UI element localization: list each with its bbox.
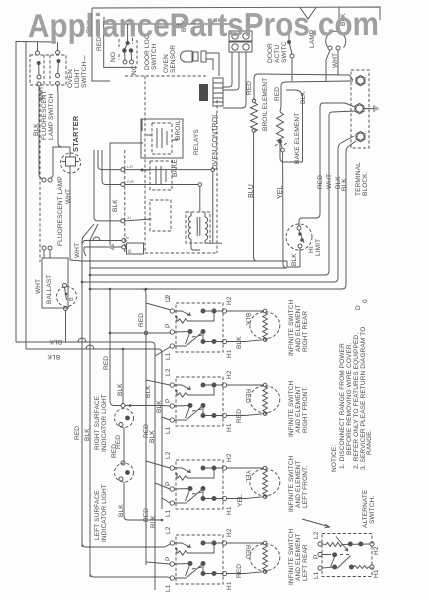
svg-text:TERMINAL: TERMINAL: [355, 162, 362, 196]
hop on J4 wire: [93, 237, 100, 241]
wire BLK feed from border (upper): [16, 342, 155, 430]
svg-text:BLK: BLK: [291, 253, 298, 266]
wire H2 to element: [226, 310, 263, 312]
svg-text:OVEN: OVEN: [67, 69, 74, 88]
connector block lower: [229, 42, 252, 52]
svg-text:SWITCH—: SWITCH—: [81, 55, 88, 88]
svg-text:RED: RED: [274, 87, 281, 101]
svg-text:BLU: BLU: [248, 184, 255, 198]
svg-text:ACTU: ACTU: [274, 45, 281, 63]
terminal top (hex nut): [356, 75, 365, 85]
wire BLK2 terminal 3 down: [342, 141, 356, 289]
svg-text:WHT: WHT: [326, 174, 333, 189]
svg-text:P: P: [165, 399, 172, 403]
svg-text:2. REFER ONLY TO FEATURES EQUI: 2. REFER ONLY TO FEATURES EQUIPPED.: [353, 333, 360, 469]
wire bundle left drops: [82, 241, 86, 257]
svg-text:RED: RED: [103, 356, 110, 370]
wire BLU from oven control: [254, 132, 258, 261]
svg-text:NO: NO: [110, 52, 117, 62]
svg-text:P: P: [165, 557, 172, 561]
wire feeds left front: [146, 430, 170, 590]
wire bus y275 WHT: [90, 274, 325, 276]
svg-text:BLK: BLK: [117, 383, 124, 396]
wire control drops to transformer: [200, 172, 213, 244]
hop marks on BLK feed: [78, 338, 94, 349]
relay board enclosure: [110, 143, 143, 245]
wire bus y289 BLK2: [90, 288, 342, 290]
svg-text:FLUORESCENT LAMP: FLUORESCENT LAMP: [57, 176, 64, 246]
surface element (right rear): [250, 309, 280, 341]
svg-text:NOTICE:: NOTICE:: [331, 445, 338, 472]
svg-text:LIMIT: LIMIT: [315, 239, 322, 256]
right surface indicator light: [115, 348, 171, 461]
svg-text:L2: L2: [313, 531, 320, 539]
svg-text:INFINITE SWITCH: INFINITE SWITCH: [288, 299, 295, 356]
door lock switch contacts: [123, 24, 134, 64]
svg-text:RED: RED: [143, 508, 150, 522]
relays stamp (reversed print): [199, 84, 208, 101]
svg-text:RED: RED: [244, 545, 251, 559]
junction ring control J2: [198, 183, 202, 187]
svg-text:H1: H1: [226, 349, 233, 358]
svg-text:L1: L1: [165, 584, 172, 592]
wire top run to switches: [16, 42, 58, 51]
svg-text:SWITCH.: SWITCH.: [369, 496, 376, 524]
alternate switch dashed box: [322, 534, 372, 577]
terminal middle (hex nut): [355, 103, 364, 113]
svg-text:BLK: BLK: [112, 199, 119, 212]
svg-text:BAKE: BAKE: [172, 159, 179, 177]
connector ring J4: [122, 239, 126, 243]
svg-text:L2: L2: [165, 368, 172, 376]
wire RED terminal 2 to hi limit: [299, 103, 355, 226]
wire bus y268 YEL left: [90, 267, 287, 269]
svg-text:SWITCH: SWITCH: [151, 43, 158, 70]
connector ring J3: [121, 219, 125, 223]
door actuated switch: [288, 24, 295, 81]
lamp end contacts (bottom pair): [42, 246, 52, 258]
wire L2 right rear feed: [146, 303, 171, 310]
wire J2 run to control: [125, 184, 198, 186]
surface element (left rear): [250, 541, 280, 573]
svg-text:SWITC: SWITC: [281, 41, 288, 63]
svg-text:N: N: [126, 236, 129, 240]
svg-text:BEFORE REMOVING WIRE COVER.: BEFORE REMOVING WIRE COVER.: [346, 342, 353, 455]
bake element thermal switch: [275, 140, 288, 152]
alternate switch contacts: [318, 537, 374, 571]
pin code marks: [126, 165, 134, 240]
svg-text:WHT: WHT: [74, 243, 81, 258]
wire lamp to bus: [70, 260, 82, 261]
fluorescent lamp switch / oven light switch dashed box: [30, 55, 66, 85]
svg-text:YEL: YEL: [244, 470, 251, 483]
wire feeds right front: [146, 380, 170, 420]
svg-text:RED: RED: [244, 389, 251, 403]
starter dashed circle: [61, 153, 81, 173]
terminal block dashed box: [351, 70, 369, 148]
wire bundle to J4: [84, 240, 122, 242]
svg-text:LAMP SWITCH: LAMP SWITCH: [48, 93, 55, 140]
oven light switch contacts: [56, 51, 61, 86]
dashed aux box: [150, 200, 171, 231]
wire L1 right rear feed: [155, 347, 170, 356]
svg-text:RED: RED: [138, 313, 145, 327]
svg-text:RIGHT FRONT.: RIGHT FRONT.: [302, 386, 309, 433]
broil bottom terminal: [252, 129, 255, 132]
starter body: [66, 157, 76, 166]
svg-text:L2: L2: [165, 526, 172, 534]
svg-text:H2: H2: [226, 453, 233, 462]
wire bus y261 BLU left: [82, 260, 260, 262]
wire H2 to element: [226, 467, 263, 469]
bake element: [277, 112, 284, 141]
wire YEL from bake switch: [283, 152, 287, 268]
svg-text:RED: RED: [74, 426, 81, 440]
arrow to alternate switch: [302, 519, 330, 528]
svg-text:RED: RED: [111, 444, 118, 458]
svg-text:BLK: BLK: [341, 178, 348, 191]
svg-text:ALTERNATE: ALTERNATE: [362, 489, 369, 528]
wire J1 run to control: [125, 169, 211, 171]
junction ring control J1: [211, 168, 215, 172]
relay output connector strip: [213, 78, 223, 106]
ground connector box GRD: [127, 243, 144, 254]
svg-text:BROIL ELEMENT: BROIL ELEMENT: [262, 78, 269, 131]
wire left border BLK bus (outer): [15, 41, 17, 342]
svg-text:DOOR: DOOR: [267, 43, 274, 63]
wire top border (BLK run to lamp): [92, 7, 380, 20]
svg-text:L1: L1: [165, 352, 172, 360]
junction node: [141, 169, 144, 172]
svg-text:AND ELEMENT: AND ELEMENT: [295, 385, 302, 433]
svg-text:SENSOR: SENSOR: [170, 45, 177, 73]
wire BLK terminal 3 down: [334, 136, 354, 282]
svg-text:G: G: [127, 249, 133, 253]
svg-text:BLOCK.: BLOCK.: [362, 171, 369, 196]
svg-text:WHT: WHT: [332, 53, 339, 68]
infinite switch (left rear): [170, 535, 227, 584]
connector block upper: [229, 31, 252, 41]
wire H1 to element: [226, 497, 263, 499]
broil element: [251, 103, 258, 133]
svg-text:L1: L1: [165, 509, 172, 517]
wire bus5 drop to switches: [142, 289, 146, 565]
svg-text:INFINITE SWITCH: INFINITE SWITCH: [288, 528, 295, 585]
oven lamp: [326, 7, 346, 82]
junction dots on left bus: [81, 281, 84, 284]
svg-text:H2: H2: [226, 528, 233, 537]
wire J3 run to control: [125, 219, 152, 221]
svg-text:BLK: BLK: [49, 338, 62, 345]
wire bake return: [280, 94, 303, 162]
svg-text:AND ELEMENT: AND ELEMENT: [295, 533, 302, 581]
svg-text:INFINITE SWITCH: INFINITE SWITCH: [288, 455, 295, 512]
wire bus to terminal 1: [254, 74, 353, 106]
svg-text:AND ELEMENT: AND ELEMENT: [295, 460, 302, 508]
svg-text:RED: RED: [317, 175, 324, 189]
svg-text:YEL: YEL: [277, 185, 284, 199]
svg-text:STARTER: STARTER: [71, 115, 80, 152]
infinite switch (right front): [170, 377, 227, 426]
wire feeds left rear: [146, 544, 170, 578]
svg-text:BROIL: BROIL: [175, 120, 182, 140]
svg-text:OVEN: OVEN: [163, 54, 170, 73]
svg-text:J-I: J-I: [127, 216, 131, 220]
wire bottom-left corner feeds: [82, 543, 168, 577]
wire into bake relay: [142, 119, 150, 170]
svg-text:RED: RED: [236, 409, 243, 423]
ground symbol (oven): [109, 244, 122, 250]
vertical bus RED/BLK left pair: [82, 261, 90, 577]
wire harness to left bus: [82, 224, 98, 268]
wire harness verticals: [94, 150, 121, 221]
svg-text:D: D: [355, 305, 362, 310]
svg-text:H2: H2: [226, 296, 233, 305]
svg-text:HI: HI: [308, 246, 315, 253]
svg-text:WHT: WHT: [35, 279, 42, 294]
svg-text:H2: H2: [373, 546, 380, 555]
svg-text:BAKE ELEMENT: BAKE ELEMENT: [294, 113, 301, 164]
svg-text:FLUORESCENT: FLUORESCENT: [41, 90, 48, 140]
svg-text:O-R: O-R: [127, 180, 134, 184]
ground symbol: [364, 105, 378, 112]
svg-text:L2: L2: [165, 451, 172, 459]
svg-text:LEFT FRONT.: LEFT FRONT.: [302, 466, 309, 508]
svg-text:L-R: L-R: [127, 165, 133, 169]
hi limit dashed circle: [286, 224, 312, 250]
wire BLK feed from border (lower): [26, 349, 162, 509]
wire starter top corner: [53, 147, 70, 176]
svg-text:OVEN CONTROL: OVEN CONTROL: [212, 113, 219, 170]
svg-text:INDICATOR LIGHT: INDICATOR LIGHT: [101, 394, 108, 452]
svg-text:LEFT SURFACE: LEFT SURFACE: [94, 490, 101, 540]
wire H1 to element: [226, 340, 263, 342]
wire BLK drop at left: [92, 8, 110, 81]
connector ring J2: [121, 183, 125, 187]
svg-text:RIGHT REAR: RIGHT REAR: [302, 311, 309, 352]
wire bundle to J5/ground: [84, 246, 108, 248]
wire H2 to element: [226, 384, 263, 386]
fluorescent lamp switch contacts: [36, 51, 42, 86]
svg-text:L1: L1: [313, 571, 320, 579]
svg-text:BLK: BLK: [156, 400, 163, 413]
connector ring J5: [122, 245, 126, 249]
svg-text:WHT: WHT: [65, 189, 72, 204]
wire from oven light switch down: [58, 86, 63, 148]
door lock switch box: [104, 21, 137, 67]
svg-text:BLK: BLK: [47, 353, 60, 360]
svg-text:1. DISCONNECT RANGE FROM POWER: 1. DISCONNECT RANGE FROM POWER: [339, 343, 346, 469]
wire blocks down to control: [223, 52, 246, 108]
wire to bake element: [280, 106, 281, 112]
svg-text:H1: H1: [226, 423, 233, 432]
svg-text:B: B: [69, 297, 75, 301]
wire inner top run: [104, 17, 230, 24]
wire cutout to BLK feed: [65, 311, 67, 343]
wire fluorescent lamp tube (WHT): [69, 172, 71, 260]
svg-text:L1: L1: [165, 426, 172, 434]
svg-text:0: 0: [362, 299, 369, 303]
wire P right rear feed: [110, 332, 171, 334]
bake relay internals: [156, 166, 166, 185]
infinite switch (left front): [170, 460, 227, 509]
wire H1 to element: [226, 414, 263, 416]
svg-text:AppliancePartsPros.com: AppliancePartsPros.com: [28, 5, 379, 44]
oven control transformer coils: [186, 212, 210, 243]
oven sensor bulb: [181, 51, 198, 62]
ballast box: [42, 258, 68, 308]
infinite switch (right rear): [170, 303, 227, 352]
wire H2 to element: [226, 542, 263, 544]
wire RED drop to indicator: [110, 289, 121, 406]
svg-text:RED: RED: [236, 564, 243, 578]
lamp end contacts (top pair): [39, 86, 53, 182]
svg-text:INFINITE SWITCH: INFINITE SWITCH: [288, 380, 295, 437]
svg-text:H1: H1: [226, 581, 233, 590]
svg-text:RED: RED: [246, 81, 253, 95]
svg-text:H1: H1: [226, 506, 233, 515]
svg-text:AND ELEMENT: AND ELEMENT: [295, 304, 302, 352]
svg-text:INDICATOR LIGHT: INDICATOR LIGHT: [101, 484, 108, 542]
terminal bottom (hex nut): [356, 131, 365, 141]
connector interface dashed line: [124, 150, 126, 254]
svg-text:BALLAST: BALLAST: [46, 275, 53, 304]
svg-text:P: P: [165, 482, 172, 486]
svg-text:RELAYS: RELAYS: [193, 129, 200, 155]
svg-text:BLK: BLK: [118, 504, 125, 517]
wire left inner bus: [25, 42, 27, 349]
bake relay box: [150, 161, 172, 190]
svg-text:RIGHT SURFACE: RIGHT SURFACE: [94, 395, 101, 450]
svg-text:BLK: BLK: [244, 313, 251, 326]
wire H1 to element: [226, 572, 263, 574]
oven sensor connector: [201, 51, 219, 76]
broil top terminal: [252, 99, 255, 102]
wire WHT terminal 2 down: [325, 111, 355, 275]
connector ring J1: [121, 168, 125, 172]
svg-text:P: P: [165, 324, 172, 328]
svg-text:LIGHT: LIGHT: [74, 68, 81, 88]
svg-text:BLK: BLK: [145, 385, 152, 398]
broil relay internals: [152, 123, 172, 154]
broil relay box: [141, 119, 183, 158]
svg-text:LEFT REAR: LEFT REAR: [302, 544, 309, 581]
svg-text:RANGE.: RANGE.: [366, 429, 373, 455]
svg-text:2: 2: [165, 296, 172, 300]
ballast thermal cutout B: [57, 284, 77, 311]
svg-text:P: P: [313, 555, 320, 559]
left surface indicator light: [115, 461, 164, 521]
surface element (left front): [250, 466, 280, 498]
fluorescent lamp dashed enclosure: [39, 88, 41, 262]
svg-text:H1: H1: [373, 569, 380, 578]
oven control dashed box: [125, 76, 217, 253]
svg-text:H2: H2: [226, 370, 233, 379]
surface element (right front): [250, 383, 280, 415]
svg-text:BLK: BLK: [236, 336, 243, 349]
hi limit contacts: [260, 226, 304, 267]
svg-text:BLK: BLK: [150, 515, 157, 528]
wire bus y282 BLK: [82, 281, 334, 283]
wire J4 stub: [125, 240, 128, 242]
svg-text:YEL: YEL: [237, 494, 244, 507]
door plunger notch: [300, 8, 316, 20]
svg-text:NC: NC: [131, 65, 138, 75]
svg-text:BLK: BLK: [84, 428, 91, 441]
